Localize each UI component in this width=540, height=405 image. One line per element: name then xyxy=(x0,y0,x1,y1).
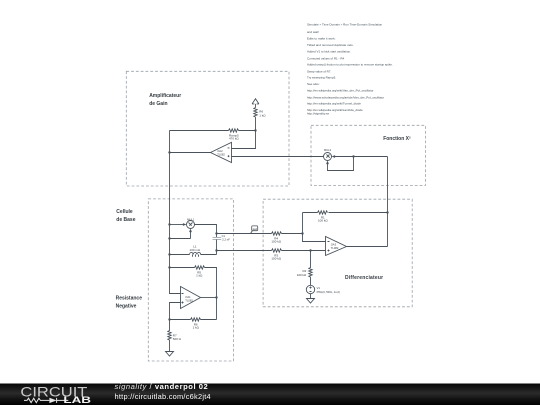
junction loop xyxy=(352,155,354,157)
svg-text:Negative: Negative xyxy=(116,303,137,309)
wire feedback up xyxy=(169,131,171,153)
svg-text:OA1: OA1 xyxy=(185,295,191,299)
label Resistance Negative xyxy=(116,296,143,310)
svg-text:out: out xyxy=(253,227,257,231)
svg-text:100 kΩ: 100 kΩ xyxy=(318,218,328,222)
junction R1/output rail xyxy=(386,211,388,213)
resistor R7 xyxy=(168,320,182,352)
wire R5 row xyxy=(170,268,217,298)
junction OA2 output xyxy=(168,151,170,153)
svg-text:OA2: OA2 xyxy=(217,149,223,153)
svg-text:Differenciateur: Differenciateur xyxy=(345,275,383,281)
svg-text:PWL(0, 500n, 1u,0): PWL(0, 500n, 1u,0) xyxy=(317,290,340,294)
power flag VCC xyxy=(252,99,259,108)
svg-text:MUL1: MUL1 xyxy=(187,217,195,221)
wire OA1 plus input xyxy=(170,303,181,320)
svg-text:http://en.wikipedia.org/wiki/T: http://en.wikipedia.org/wiki/Tunnel_diod… xyxy=(307,101,361,105)
svg-text:1 kΩ: 1 kΩ xyxy=(259,114,266,118)
wire OA2 output xyxy=(170,152,211,154)
junction L1 left xyxy=(168,253,170,255)
svg-text:Swap value of R7.: Swap value of R7. xyxy=(307,69,332,73)
flag out xyxy=(251,226,258,234)
wire C1 bottom xyxy=(216,240,218,251)
wire to OA2 minus input xyxy=(232,131,256,149)
wire OA2 plus to MUL2 output xyxy=(232,156,324,158)
wire R6 bottom row xyxy=(170,319,217,321)
wire MUL2 right input xyxy=(335,156,388,158)
svg-text:http://en.wikipedia.org/wiki/V: http://en.wikipedia.org/wiki/Van_der_Pol… xyxy=(307,88,373,92)
wire OA3 output xyxy=(347,246,388,248)
multiplier MUL1 xyxy=(187,217,195,228)
svg-text:http://signality.se: http://signality.se xyxy=(307,112,329,116)
wire diff minus vertical xyxy=(303,213,326,242)
label Cellule de Base xyxy=(116,209,135,223)
box Cellule de Base / Resistance Negative xyxy=(148,199,233,361)
svg-text:Simulate > Time Domain > Run T: Simulate > Time Domain > Run Time-Domain… xyxy=(307,23,383,27)
box Fonction X2 xyxy=(311,125,425,185)
voltage source V1 xyxy=(306,285,340,294)
junction out/minus xyxy=(301,232,303,234)
inductor L1 xyxy=(190,245,201,257)
box Amplificateur de Gain xyxy=(126,71,289,186)
op-amp OA1 xyxy=(181,287,201,309)
svg-text:500 Ω: 500 Ω xyxy=(173,337,182,341)
svg-text:1 kΩ: 1 kΩ xyxy=(193,325,200,329)
svg-text:See also:: See also: xyxy=(307,82,320,86)
multiplier MUL2 xyxy=(324,148,332,160)
svg-text:TL082: TL082 xyxy=(217,153,225,157)
svg-text:Added ustep() fnction to plot: Added ustep() fnction to plot expression… xyxy=(307,63,393,67)
svg-text:C1: C1 xyxy=(222,234,226,238)
box Differenciateur xyxy=(263,199,412,307)
wire ramp5 feedback row xyxy=(170,130,256,132)
svg-text:100 kΩ: 100 kΩ xyxy=(271,256,281,260)
notes text block xyxy=(307,23,393,116)
svg-text:http://www.scholarpedia.org/ar: http://www.scholarpedia.org/article/Van_… xyxy=(307,95,384,99)
ground (differenciateur) xyxy=(307,299,315,304)
resistor R4 xyxy=(271,232,281,244)
junction C1/L1/R3 xyxy=(215,249,217,251)
wire MUL1 left input xyxy=(170,224,184,226)
arrowhead MUL1 bottom input xyxy=(189,229,192,233)
svg-text:Cellule: Cellule xyxy=(116,209,133,215)
wire R3 row to OA3 plus xyxy=(217,250,326,252)
svg-text:LAB: LAB xyxy=(63,395,91,405)
logo squiggle resistor-diode xyxy=(24,398,68,403)
wire MUL2 loop xyxy=(328,157,354,171)
wire MUL1 bottom input xyxy=(170,232,191,239)
svg-text:470 kΩ: 470 kΩ xyxy=(229,136,239,140)
resistor R2 xyxy=(297,251,312,286)
svg-text:http://circuitlab.com/c6k2jt4: http://circuitlab.com/c6k2jt4 xyxy=(115,392,211,401)
svg-text:OA3: OA3 xyxy=(331,242,337,246)
svg-text:Try sweeping Ramp5.: Try sweeping Ramp5. xyxy=(307,76,336,80)
svg-text:and wait!: and wait! xyxy=(307,30,319,34)
svg-text:100 kΩ: 100 kΩ xyxy=(271,239,281,243)
svg-text:Edits to make it work:: Edits to make it work: xyxy=(307,36,336,40)
svg-text:de Gain: de Gain xyxy=(149,101,167,107)
resistor R5 xyxy=(195,266,205,278)
arrowhead MUL2 bottom input xyxy=(326,161,329,165)
svg-text:MUL2: MUL2 xyxy=(324,148,332,152)
svg-text:1 kΩ: 1 kΩ xyxy=(196,273,203,277)
svg-text:de Base: de Base xyxy=(116,217,135,223)
svg-text:Added V1 to kick start oscilla: Added V1 to kick start oscillation. xyxy=(307,49,351,53)
svg-text:Fonction X²: Fonction X² xyxy=(383,136,411,142)
arrowhead MUL2 right input xyxy=(332,155,336,158)
wire OA1 output xyxy=(201,297,217,299)
resistor R6 (top) xyxy=(254,108,267,131)
junction R5 left xyxy=(168,266,170,268)
op-amp OA2 xyxy=(211,142,232,162)
arrowhead MUL1 left input xyxy=(183,223,187,226)
wire output rail down xyxy=(387,157,389,247)
junction ramp5/R6 xyxy=(254,129,256,131)
junction plus/R2 xyxy=(309,249,311,251)
node out wire xyxy=(217,233,303,235)
junction out branch xyxy=(215,232,217,234)
junction plus/R6/R7 xyxy=(168,318,170,320)
svg-text:TL082: TL082 xyxy=(331,246,339,250)
junction rail bottom input xyxy=(168,237,170,239)
resistor R1 xyxy=(318,211,329,223)
junction OA1 output xyxy=(215,296,217,298)
resistor Ramp5 xyxy=(229,129,240,141)
wire main left rail xyxy=(170,153,181,294)
svg-text:Tidied and removed duplicate n: Tidied and removed duplicate nets. xyxy=(307,43,354,47)
capacitor C1 xyxy=(213,234,231,242)
svg-text:signality / vanderpol 02: signality / vanderpol 02 xyxy=(115,382,209,391)
op-amp OA3 xyxy=(326,237,347,256)
resistor R3 xyxy=(271,249,281,260)
svg-text:Corrected values of R1 - R4: Corrected values of R1 - R4 xyxy=(307,56,345,60)
svg-text:V1: V1 xyxy=(317,286,321,290)
svg-text:100 mH: 100 mH xyxy=(190,248,201,252)
svg-text:Amplificateur: Amplificateur xyxy=(149,93,181,99)
junction rail MUL1 xyxy=(168,223,170,225)
wire output to R6 row xyxy=(216,298,218,320)
svg-text:Resistance: Resistance xyxy=(116,296,143,302)
ground (resistance negative) xyxy=(166,352,174,357)
svg-text:2.2 nF: 2.2 nF xyxy=(222,238,230,242)
wire MUL1 output xyxy=(195,225,217,238)
svg-text:100 kΩ: 100 kΩ xyxy=(297,273,307,277)
resistor R6 (bottom) xyxy=(191,318,201,330)
wire L1 row xyxy=(170,251,217,255)
svg-text:TL082: TL082 xyxy=(185,299,193,303)
wire R1 feedback row xyxy=(303,212,388,214)
label Amplificateur de Gain xyxy=(149,93,181,107)
wire V1 to ground xyxy=(310,294,312,299)
